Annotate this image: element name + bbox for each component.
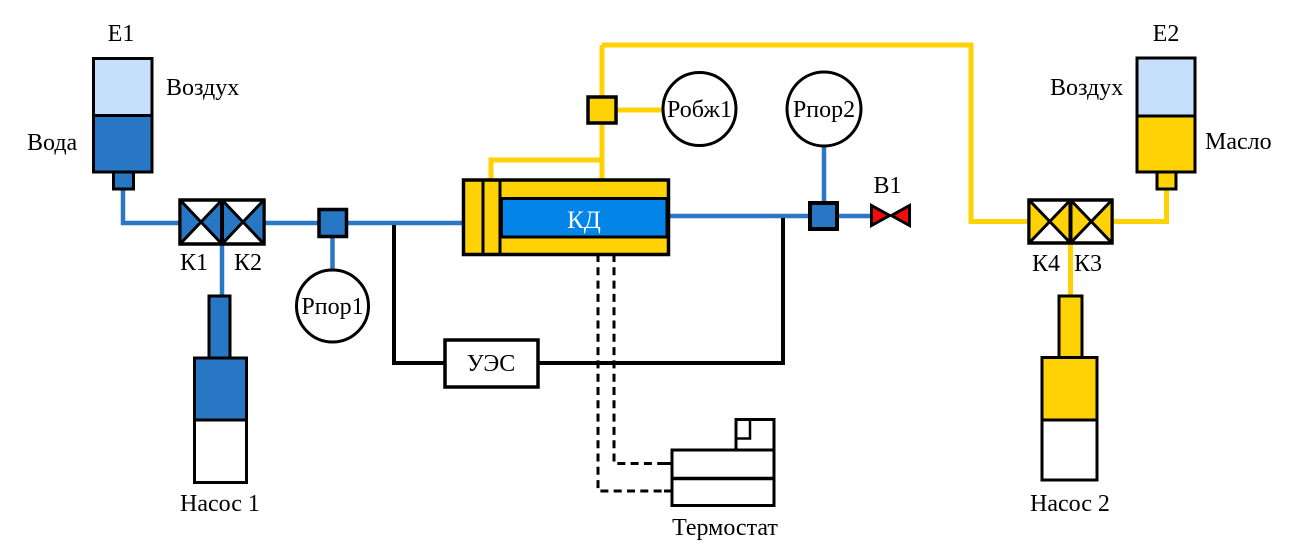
gauge Rpor2 <box>787 72 861 146</box>
tank E1 air section <box>94 59 153 116</box>
svg-text:Е1: Е1 <box>108 21 135 47</box>
svg-text:УЭС: УЭС <box>467 351 516 377</box>
svg-text:КД: КД <box>567 207 601 234</box>
gauge Robzh1 <box>663 73 736 146</box>
valve K4 K3 <box>1029 200 1112 243</box>
tank E1 water section <box>94 116 153 173</box>
wire yellow: top loop across and down to valve K4K3 <box>602 45 1030 222</box>
svg-text:Масло: Масло <box>1205 129 1272 155</box>
svg-text:Вода: Вода <box>27 130 78 156</box>
thermostat <box>672 420 774 506</box>
wire blue: valve K1K2 to node square <box>264 221 320 226</box>
tank E1 nozzle <box>114 172 134 189</box>
svg-text:Насос 1: Насос 1 <box>180 491 260 517</box>
node square S2 <box>810 203 837 229</box>
wire yellow: riser square top to top loop <box>600 45 605 99</box>
wire yellow: valve K4K3 down to pump 2 <box>1068 242 1073 297</box>
wire dashed: KD bottom left capillary to thermostat <box>598 254 671 491</box>
tank E2 air section <box>1137 58 1195 116</box>
valve K1 K2 <box>180 200 264 244</box>
wire yellow: tank E2 to valve K4K3 <box>1111 187 1167 222</box>
wire blue: gauge Rpor2 down to node square 2 <box>822 145 827 204</box>
box UES <box>445 340 538 387</box>
wire blue: node square down to gauge Rpor1 <box>330 236 335 272</box>
svg-text:В1: В1 <box>873 173 901 199</box>
svg-text:Воздух: Воздух <box>166 75 239 101</box>
gauge Rpor1 <box>297 270 369 342</box>
svg-text:К4: К4 <box>1032 251 1060 277</box>
wire dashed plug at thermostat left lower <box>664 490 672 493</box>
wire blue: valve K1K2 down to pump 1 <box>220 244 225 298</box>
svg-text:К1: К1 <box>180 250 208 276</box>
svg-text:Робж1: Робж1 <box>667 97 732 123</box>
node square S1 <box>319 210 347 237</box>
wire yellow: KD top elbow to riser <box>491 160 602 181</box>
wire blue: node square 2 to valve B1 <box>836 214 872 219</box>
wire blue: tank E1 to valve K1K2 <box>123 187 180 223</box>
wire dashed plug at thermostat left upper <box>664 462 672 465</box>
wire blue: KD right to node square 2 <box>667 214 811 219</box>
pump Nasos 2 <box>1042 296 1097 480</box>
wire dashed: KD bottom right capillary to thermostat <box>614 254 671 464</box>
chamber KD <box>464 180 669 255</box>
wire yellow: riser square bottom to KD top <box>600 122 605 181</box>
svg-text:К2: К2 <box>234 250 262 276</box>
wire black: left tap down to UES <box>394 225 446 363</box>
valve B1 <box>872 206 910 226</box>
tank E2 nozzle <box>1157 172 1176 189</box>
node square yellow <box>588 97 616 123</box>
svg-text:Воздух: Воздух <box>1050 75 1123 101</box>
wire yellow: square to gauge Robzh1 <box>615 108 665 113</box>
svg-text:Рпор1: Рпор1 <box>301 294 363 320</box>
tank E2 oil section <box>1137 116 1195 172</box>
svg-text:Насос 2: Насос 2 <box>1030 491 1110 517</box>
svg-text:Рпор2: Рпор2 <box>793 97 855 123</box>
wire black: UES to right riser up to blue pipe <box>537 218 783 363</box>
svg-text:Термостат: Термостат <box>672 515 778 541</box>
pump Nasos 1 <box>195 296 247 483</box>
wire blue: node square to KD left <box>346 221 465 226</box>
svg-text:К3: К3 <box>1074 251 1102 277</box>
svg-text:Е2: Е2 <box>1153 21 1180 47</box>
